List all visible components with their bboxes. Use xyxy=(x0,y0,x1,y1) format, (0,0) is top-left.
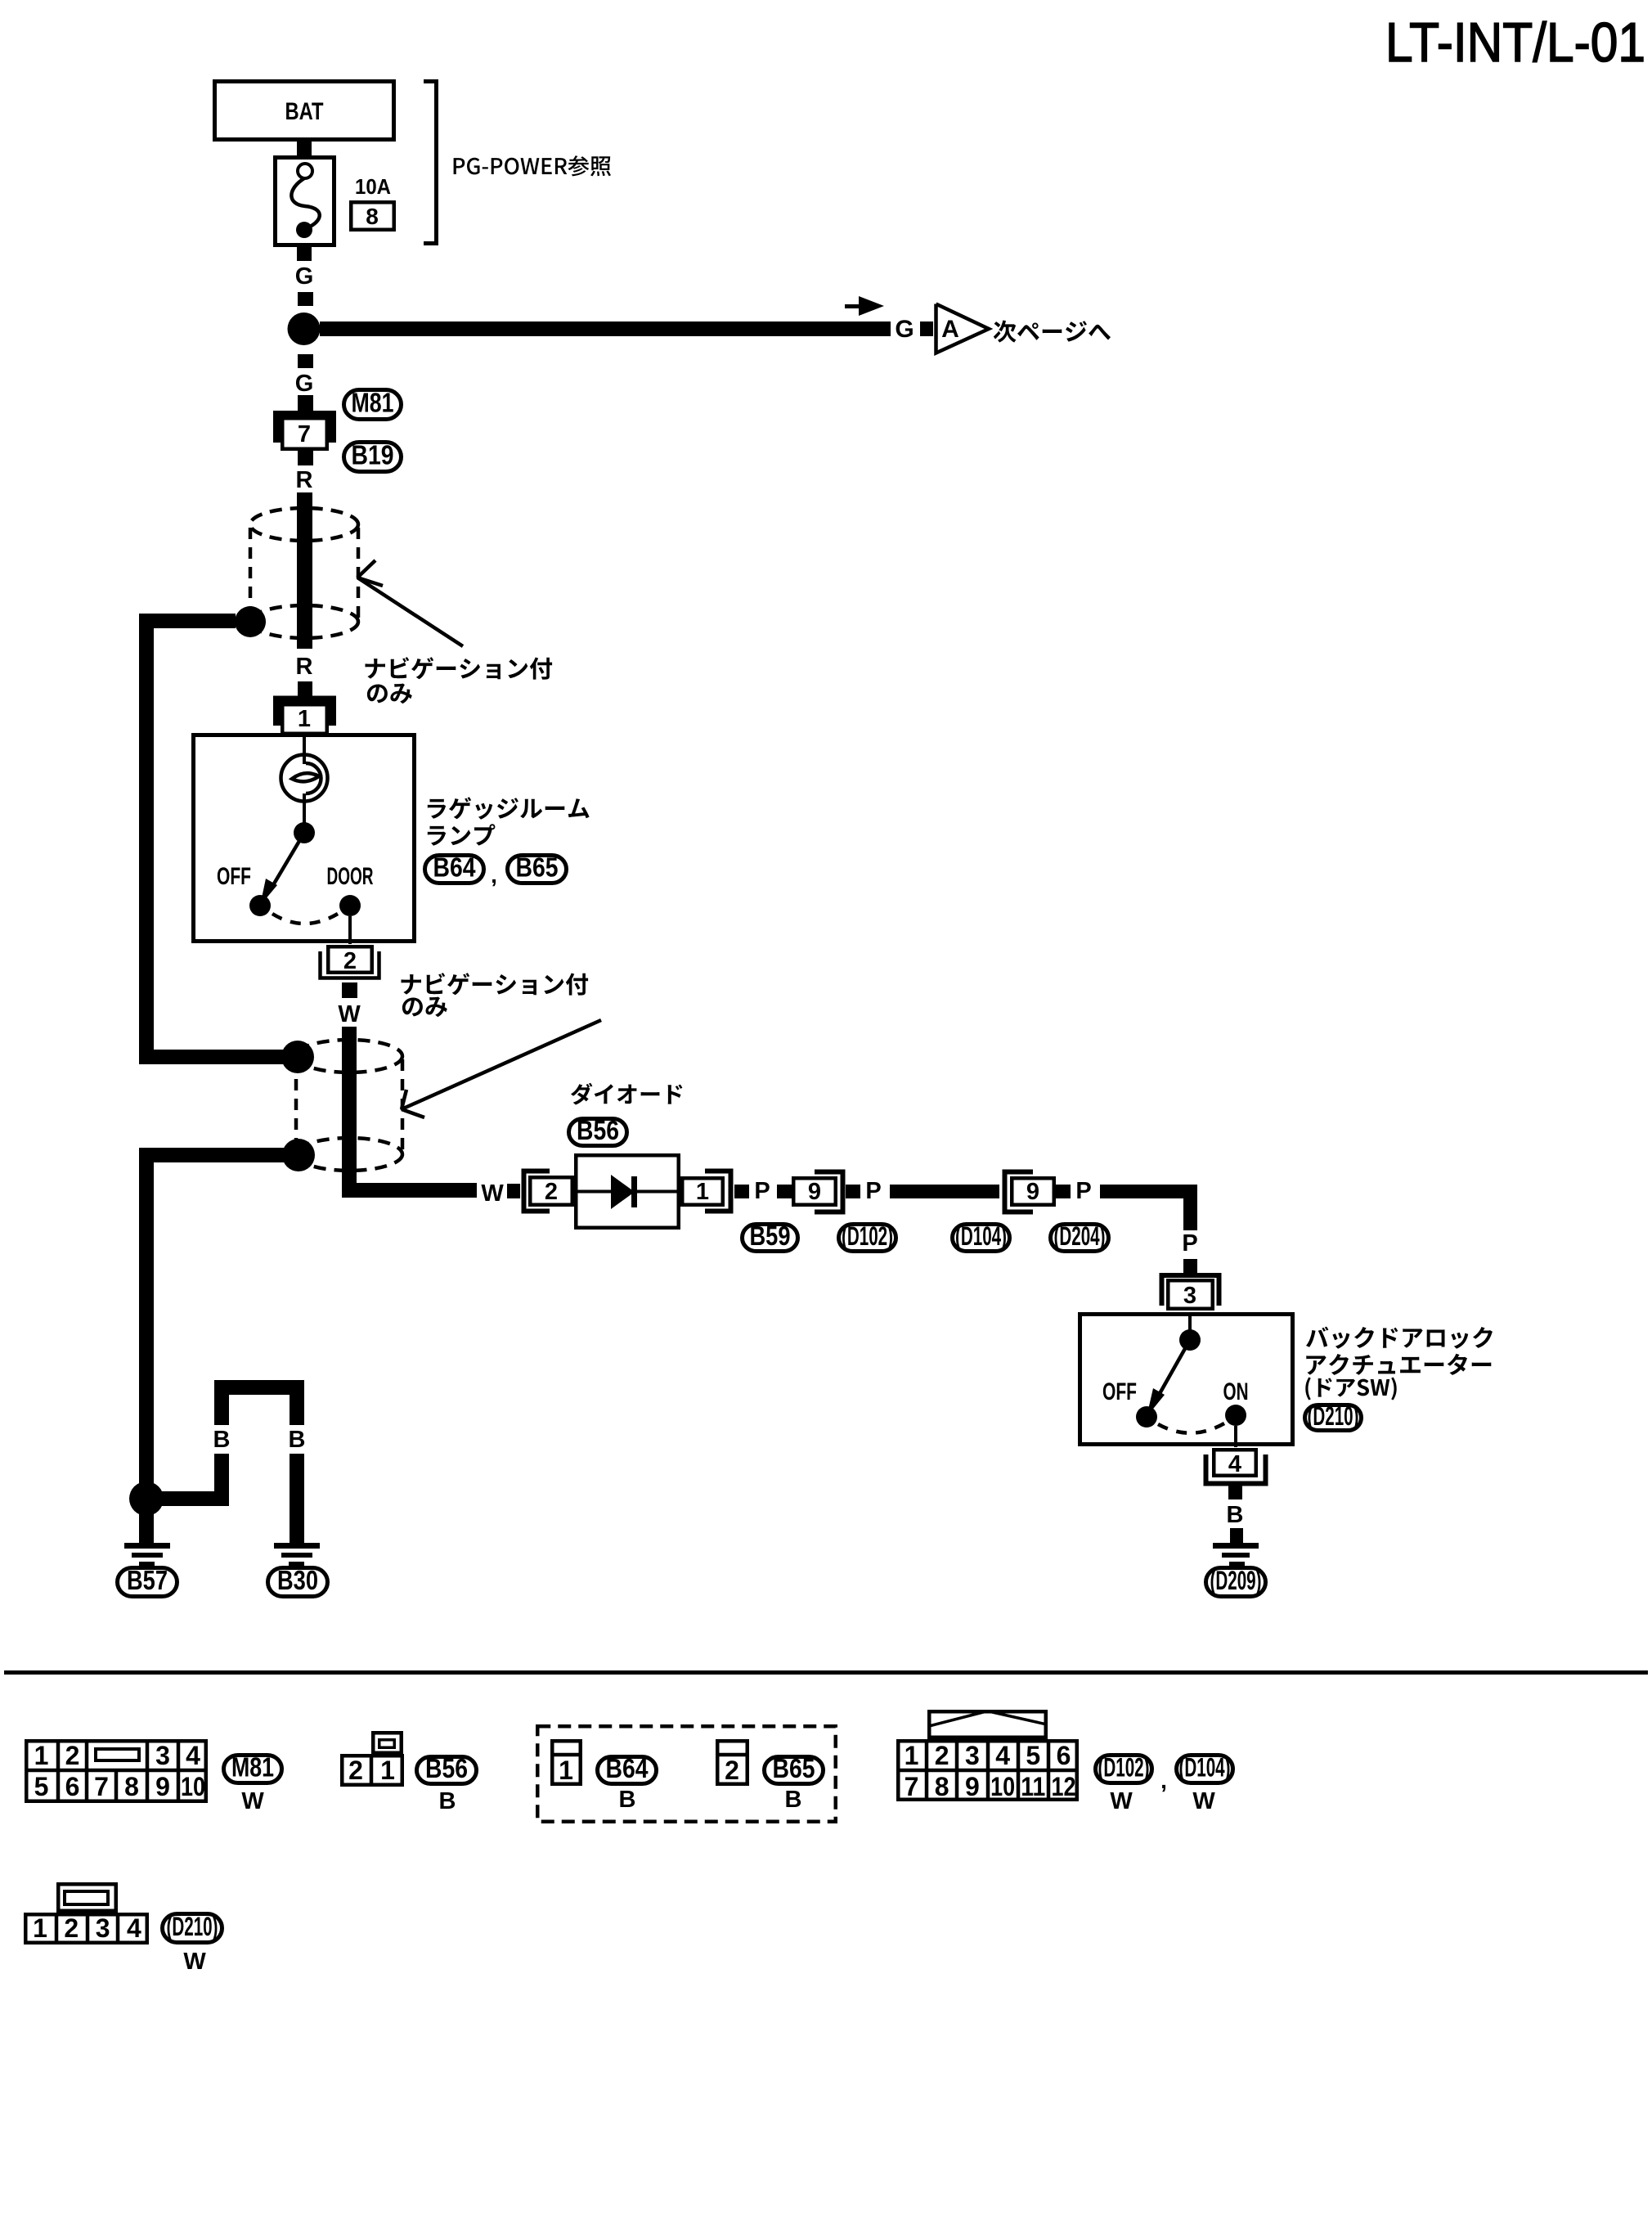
wire stub to ground D209 xyxy=(1230,1528,1243,1543)
svg-text:10: 10 xyxy=(181,1772,205,1801)
fuse rating label 10A xyxy=(355,174,391,199)
label ダイオード xyxy=(571,1083,682,1105)
svg-text:1: 1 xyxy=(34,1741,49,1770)
svg-text:6: 6 xyxy=(1057,1741,1071,1770)
label ラゲッジルーム xyxy=(428,797,590,820)
label DOOR xyxy=(327,863,374,890)
legend B64 color B xyxy=(619,1787,636,1813)
legend connector label D210 xyxy=(163,1912,222,1943)
svg-text:4: 4 xyxy=(995,1741,1010,1770)
svg-text:1: 1 xyxy=(298,706,311,732)
title LT-INT/L-01 xyxy=(1385,11,1645,74)
lamp internal wire DOOR down xyxy=(348,916,352,944)
connector D104/D204 pin 9 box xyxy=(1012,1178,1054,1205)
separator line xyxy=(4,1670,1648,1675)
svg-text:12: 12 xyxy=(1052,1772,1076,1801)
wire color label G 2 xyxy=(295,371,314,397)
svg-text:1: 1 xyxy=(380,1756,395,1785)
svg-text:7: 7 xyxy=(298,421,311,447)
svg-text:(D102): (D102) xyxy=(842,1221,893,1251)
shield cylinder 1 top ellipse xyxy=(250,508,358,541)
junction node ground bus xyxy=(129,1481,164,1516)
page connector triangle A xyxy=(936,304,990,353)
wire color label B left xyxy=(213,1427,231,1453)
wire color label P 4 xyxy=(1182,1230,1197,1257)
connector B59/D102 pin 9 bracket xyxy=(815,1172,843,1212)
actuator pin 4 flange xyxy=(1206,1454,1266,1484)
legend D104 color W xyxy=(1192,1788,1215,1814)
wire bridge right leg xyxy=(290,1380,304,1425)
svg-text:W: W xyxy=(183,1949,206,1975)
legend connector D102/D104 pin grid xyxy=(896,1711,1079,1801)
svg-text:B56: B56 xyxy=(425,1753,468,1783)
wire color label G xyxy=(295,263,314,290)
label ドアSW xyxy=(1305,1378,1396,1400)
svg-text:G: G xyxy=(295,263,314,290)
label のみ 2 xyxy=(402,997,447,1018)
wire stub to diode xyxy=(507,1184,520,1198)
svg-text:11: 11 xyxy=(1021,1772,1045,1801)
svg-text:B: B xyxy=(785,1787,802,1813)
label 次ページへ xyxy=(994,321,1111,343)
svg-text:B30: B30 xyxy=(277,1565,318,1595)
wire P horizontal xyxy=(890,1185,999,1198)
junction node shield 2 bottom xyxy=(282,1139,315,1171)
svg-text:3: 3 xyxy=(96,1913,110,1943)
diode symbol xyxy=(611,1175,637,1209)
label OFF xyxy=(217,863,251,890)
label アクチュエーター xyxy=(1306,1354,1491,1375)
svg-text:7: 7 xyxy=(94,1772,109,1801)
wire stub after D104/D204 xyxy=(1056,1185,1071,1198)
wire color label W xyxy=(338,1001,361,1027)
diode connector pin 1 box xyxy=(682,1178,723,1205)
wire R above shield xyxy=(297,492,312,649)
connector M81/B19 pin 7 box xyxy=(282,418,327,449)
connector D104/D204 pin 9 bracket xyxy=(1005,1172,1034,1212)
label PG-POWER参照 xyxy=(454,155,611,176)
svg-text:P: P xyxy=(1075,1178,1091,1204)
switch pivot xyxy=(294,822,315,843)
wire color label P 2 xyxy=(865,1178,881,1204)
svg-text:9: 9 xyxy=(965,1772,980,1801)
connector label D210 xyxy=(1305,1401,1362,1431)
wire color label P 3 xyxy=(1075,1178,1091,1204)
svg-text:1: 1 xyxy=(905,1741,919,1770)
switch DOOR contact xyxy=(339,895,361,916)
switch OFF contact xyxy=(249,895,271,916)
wire stub after diode xyxy=(734,1185,749,1198)
svg-text:2: 2 xyxy=(348,1756,363,1785)
legend M81 color W xyxy=(241,1788,264,1814)
svg-text:B59: B59 xyxy=(750,1221,791,1251)
label OFF actuator xyxy=(1102,1378,1137,1405)
svg-text:B65: B65 xyxy=(773,1753,815,1783)
actuator internal wire ON down xyxy=(1234,1426,1237,1447)
label comma 2 xyxy=(1160,1768,1167,1793)
legend B56 color B xyxy=(439,1788,456,1814)
shield cylinder 2 sides xyxy=(296,1059,402,1150)
lamp connector pin 1 flange xyxy=(277,699,333,726)
wire left bus to shield 2 top xyxy=(139,1050,283,1064)
wire stub above connector 7 xyxy=(298,395,313,411)
luggage room lamp box xyxy=(194,735,415,942)
svg-text:9: 9 xyxy=(155,1772,170,1801)
svg-text:3: 3 xyxy=(155,1741,170,1770)
actuator D210 box xyxy=(1080,1315,1293,1445)
wire bridge left to bus xyxy=(154,1491,229,1506)
wire stub to ground B57 xyxy=(139,1512,154,1543)
bracket PG-POWER reference xyxy=(424,82,437,244)
legend connector B64 pin box xyxy=(550,1741,582,1785)
legend connector label D102 xyxy=(1096,1753,1152,1783)
wire stub after B59/D102 xyxy=(846,1185,860,1198)
lamp connector pin 1 box xyxy=(282,704,327,734)
svg-text:1: 1 xyxy=(559,1756,573,1785)
svg-text:M81: M81 xyxy=(352,388,394,418)
lamp internal wire top xyxy=(303,735,306,764)
svg-text:B64: B64 xyxy=(606,1753,649,1783)
wire W down through shield 2 xyxy=(342,1027,357,1198)
connector label B19 xyxy=(344,440,402,472)
svg-text:P: P xyxy=(1182,1230,1197,1257)
svg-text:1: 1 xyxy=(696,1179,709,1205)
svg-text:9: 9 xyxy=(808,1179,821,1205)
wire left bus vertical xyxy=(139,614,154,1064)
wire dash segment xyxy=(298,292,313,306)
ground B30 symbol xyxy=(274,1543,320,1566)
shield cylinder 1 bottom ellipse xyxy=(250,605,358,638)
legend connector label B56 xyxy=(417,1753,477,1784)
connector label B64 xyxy=(425,852,484,883)
svg-text:B: B xyxy=(619,1787,636,1813)
wire stub below actuator pin 4 xyxy=(1228,1486,1242,1499)
svg-text:R: R xyxy=(296,467,313,493)
wire stub before B59/D102 xyxy=(777,1185,792,1198)
svg-text:W: W xyxy=(1192,1788,1215,1814)
wire color label R xyxy=(296,467,313,493)
connector M81/B19 pin 7 flange xyxy=(277,415,333,443)
label ランプ xyxy=(428,824,496,845)
lamp internal wire to switch xyxy=(303,794,306,825)
svg-text:W: W xyxy=(1110,1788,1133,1814)
svg-text:10A: 10A xyxy=(355,174,391,199)
wire P to actuator corner xyxy=(1100,1185,1197,1230)
svg-text:(D102): (D102) xyxy=(1098,1753,1150,1783)
wire fuse down stub xyxy=(297,247,312,261)
battery BAT box xyxy=(215,82,394,140)
connector label B65 xyxy=(508,852,567,883)
shield cylinder 2 top ellipse xyxy=(296,1040,402,1072)
label ナビゲーション付 1 xyxy=(366,657,553,679)
svg-text:(D210): (D210) xyxy=(1308,1401,1359,1431)
wire color label B right xyxy=(289,1427,306,1453)
shield cylinder 1 sides xyxy=(250,528,358,618)
legend connector label B65 xyxy=(765,1753,824,1784)
legend connector M81 pin grid xyxy=(25,1739,208,1803)
svg-text:9: 9 xyxy=(1026,1179,1039,1205)
svg-text:8: 8 xyxy=(124,1772,139,1801)
svg-text:LT-INT/L-01: LT-INT/L-01 xyxy=(1385,11,1645,74)
ground label B57 xyxy=(118,1565,177,1597)
svg-text:B56: B56 xyxy=(577,1115,619,1145)
svg-text:A: A xyxy=(941,316,959,343)
label ナビゲーション付 2 xyxy=(402,973,589,995)
actuator ON contact xyxy=(1225,1405,1246,1426)
wire color label B actuator xyxy=(1227,1502,1244,1528)
svg-text:2: 2 xyxy=(65,1741,80,1770)
wire W corner horizontal xyxy=(342,1183,477,1198)
wire color label G right xyxy=(895,316,914,343)
connector label M81 xyxy=(344,388,402,420)
svg-text:(D204): (D204) xyxy=(1054,1221,1106,1251)
svg-text:2: 2 xyxy=(64,1913,79,1943)
wire stub above actuator pin 3 xyxy=(1183,1259,1197,1273)
ground label B30 xyxy=(268,1565,328,1597)
svg-text:B: B xyxy=(289,1427,306,1453)
svg-text:DOOR: DOOR xyxy=(327,863,374,890)
label comma 1 xyxy=(491,862,497,888)
legend connector D210 pin grid xyxy=(25,1913,147,1945)
wire bridge top xyxy=(214,1380,304,1395)
ground B57 symbol xyxy=(124,1543,170,1566)
svg-text:OFF: OFF xyxy=(1102,1378,1137,1405)
svg-text:M81: M81 xyxy=(231,1752,274,1783)
svg-text:B: B xyxy=(439,1788,456,1814)
svg-text:B65: B65 xyxy=(516,852,559,883)
wire color label W 2 xyxy=(481,1180,504,1207)
connector label B56 xyxy=(569,1115,627,1146)
wire dash segment 2 xyxy=(298,354,313,368)
bulb lamp symbol xyxy=(281,755,328,802)
wire BAT to fuse xyxy=(297,142,312,155)
svg-text:5: 5 xyxy=(34,1772,49,1801)
ground label D209 xyxy=(1206,1566,1266,1597)
svg-text:3: 3 xyxy=(1183,1283,1196,1309)
ground D209 symbol xyxy=(1213,1543,1259,1566)
svg-text:B: B xyxy=(213,1427,231,1453)
svg-text:3: 3 xyxy=(965,1741,980,1770)
junction node shield 2 top xyxy=(281,1041,314,1073)
svg-text:W: W xyxy=(241,1788,264,1814)
actuator throw dashed arc xyxy=(1158,1423,1224,1433)
legend dashed group box xyxy=(537,1726,836,1822)
svg-text:4: 4 xyxy=(1228,1451,1241,1477)
svg-text:(D210): (D210) xyxy=(167,1912,218,1941)
wire stub below lamp pin 2 xyxy=(342,982,357,998)
legend D102 color W xyxy=(1110,1788,1133,1814)
legend D210 color W xyxy=(183,1949,206,1975)
shield cylinder 2 bottom ellipse xyxy=(296,1138,402,1171)
svg-text:,: , xyxy=(491,862,497,888)
diode connector pin 2 bracket xyxy=(524,1171,550,1212)
svg-text:B: B xyxy=(1227,1502,1244,1528)
lamp connector pin 2 flange xyxy=(321,951,379,978)
svg-text:B57: B57 xyxy=(127,1565,168,1595)
legend connector B56 keyway xyxy=(373,1733,402,1753)
legend B65 color B xyxy=(785,1787,802,1813)
svg-text:G: G xyxy=(295,371,314,397)
label バックドアロック xyxy=(1306,1327,1493,1349)
svg-text:P: P xyxy=(754,1178,770,1204)
junction node at shield 1 xyxy=(235,606,266,637)
actuator pin 3 box xyxy=(1168,1280,1213,1309)
svg-text:R: R xyxy=(296,654,313,680)
fuse number box 8 xyxy=(351,202,394,230)
svg-text:7: 7 xyxy=(905,1772,919,1801)
svg-text:W: W xyxy=(481,1180,504,1207)
svg-text:4: 4 xyxy=(186,1741,200,1770)
connector label D204 xyxy=(1051,1221,1109,1252)
svg-text:G: G xyxy=(895,316,914,343)
wire bridge right leg to ground xyxy=(290,1454,304,1543)
diode connector pin 2 box xyxy=(530,1177,572,1205)
junction main G node xyxy=(288,312,321,345)
annotation arrow to shield 2 xyxy=(402,1020,601,1117)
svg-text:ON: ON xyxy=(1223,1378,1249,1405)
legend connector label B64 xyxy=(598,1753,657,1784)
wire left bus horizontal xyxy=(139,614,236,628)
legend connector B65 pin box xyxy=(716,1741,749,1785)
svg-text:2: 2 xyxy=(343,948,357,974)
legend connector B56 pin grid xyxy=(342,1754,402,1787)
actuator OFF contact xyxy=(1136,1406,1157,1427)
svg-text:(D209): (D209) xyxy=(1210,1566,1262,1595)
connector label B59 xyxy=(743,1221,798,1252)
wire color label P 1 xyxy=(754,1178,770,1204)
legend connector D210 keyway xyxy=(58,1884,116,1911)
svg-text:B64: B64 xyxy=(433,852,477,883)
legend connector label M81 xyxy=(224,1752,282,1783)
svg-text:(D104): (D104) xyxy=(1179,1753,1231,1783)
wire color label R 2 xyxy=(296,654,313,680)
wire stub above lamp pin 1 xyxy=(298,681,312,696)
svg-text:2: 2 xyxy=(935,1741,949,1770)
connector label D104 xyxy=(953,1221,1010,1252)
label ON actuator xyxy=(1223,1378,1249,1405)
switch throw dashed arc xyxy=(272,914,338,924)
svg-text:P: P xyxy=(865,1178,881,1204)
switch arm arrow xyxy=(260,833,304,906)
wire left bus lower vertical xyxy=(139,1148,154,1508)
svg-text:8: 8 xyxy=(366,204,379,229)
svg-text:6: 6 xyxy=(65,1772,80,1801)
actuator pin 3 flange xyxy=(1162,1275,1219,1306)
fuse F8 10A xyxy=(276,158,334,245)
svg-text:8: 8 xyxy=(935,1772,949,1801)
diode internal line xyxy=(576,1190,679,1194)
wire stub to page connector xyxy=(920,321,933,336)
svg-text:W: W xyxy=(338,1001,361,1027)
svg-text:OFF: OFF xyxy=(217,863,251,890)
label のみ 1 xyxy=(367,684,412,704)
svg-text:2: 2 xyxy=(545,1179,558,1205)
svg-text:5: 5 xyxy=(1026,1741,1040,1770)
lamp connector pin 2 box xyxy=(328,946,372,974)
actuator pin 4 box xyxy=(1214,1450,1256,1477)
diode connector pin 1 bracket xyxy=(705,1171,731,1212)
svg-text:4: 4 xyxy=(127,1913,141,1943)
wire main horizontal G xyxy=(320,321,891,336)
diode B56 box xyxy=(576,1155,679,1228)
wire bridge left leg lower xyxy=(214,1454,229,1506)
svg-text:2: 2 xyxy=(725,1756,739,1785)
wire left bus lower horizontal xyxy=(139,1148,284,1162)
svg-text:1: 1 xyxy=(33,1913,47,1943)
arrow mark on wire xyxy=(845,296,884,316)
actuator internal wire top xyxy=(1188,1313,1192,1331)
svg-text:,: , xyxy=(1160,1768,1167,1793)
svg-text:(D104): (D104) xyxy=(955,1221,1007,1251)
svg-text:10: 10 xyxy=(990,1772,1015,1801)
wire stub below connector 7 xyxy=(298,451,313,465)
svg-text:BAT: BAT xyxy=(285,98,324,125)
connector B59/D102 pin 9 box xyxy=(793,1178,836,1205)
legend connector label D104 xyxy=(1177,1753,1233,1783)
annotation arrow to shield 1 xyxy=(357,560,463,646)
connector label D102 xyxy=(839,1221,896,1252)
svg-text:B19: B19 xyxy=(352,440,394,470)
actuator switch arm arrow xyxy=(1147,1340,1190,1417)
wire bridge left leg xyxy=(214,1380,229,1425)
actuator switch pivot xyxy=(1179,1329,1201,1351)
